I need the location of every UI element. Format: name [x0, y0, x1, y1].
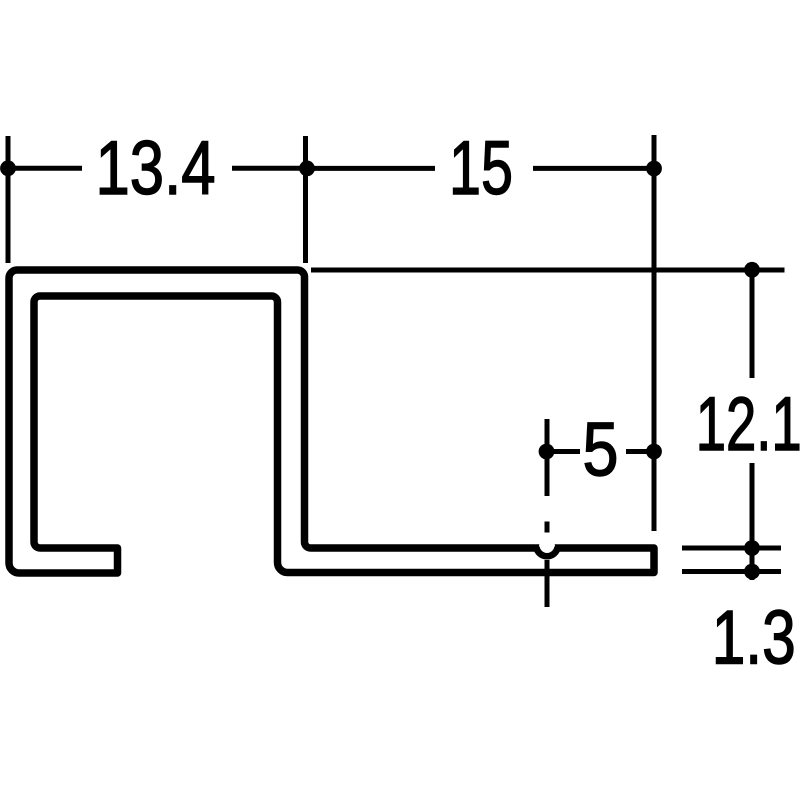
dot 13.4 left	[0, 160, 16, 176]
svg-text:15: 15	[449, 126, 513, 211]
dimension line 12.1	[750, 270, 755, 378]
dot 5 right	[646, 444, 662, 460]
dot 12.1 top	[744, 262, 760, 278]
dot 12.1 bottom / 1.3 top	[744, 540, 760, 556]
profile cross-section outline	[9, 270, 654, 573]
svg-text:1.3: 1.3	[712, 596, 796, 681]
dot 13.4/15 middle	[299, 161, 315, 177]
screw hole notch: arc	[536, 547, 557, 556]
dot 5 left	[539, 444, 555, 460]
dimension line 15	[306, 166, 436, 171]
extension line middle (13.4/15)	[303, 136, 308, 263]
extension line top right (12.1 top)	[311, 268, 785, 273]
dimension line 13.4	[8, 166, 82, 171]
svg-text:12.1: 12.1	[696, 382, 800, 467]
center line of hole (dash-dot)	[545, 419, 550, 496]
screw hole notch: white cutout	[539, 539, 555, 555]
extension line left (13.4)	[6, 136, 11, 263]
extension line 1.3 bottom	[682, 569, 781, 574]
svg-text:13.4: 13.4	[96, 126, 216, 211]
svg-text:5: 5	[583, 408, 619, 493]
dimension line 5	[547, 449, 581, 454]
dot 1.3 bottom	[744, 564, 760, 580]
extension line right (15)	[652, 135, 657, 531]
extension line 1.3 top	[682, 546, 781, 551]
dot 15 right	[646, 161, 662, 177]
